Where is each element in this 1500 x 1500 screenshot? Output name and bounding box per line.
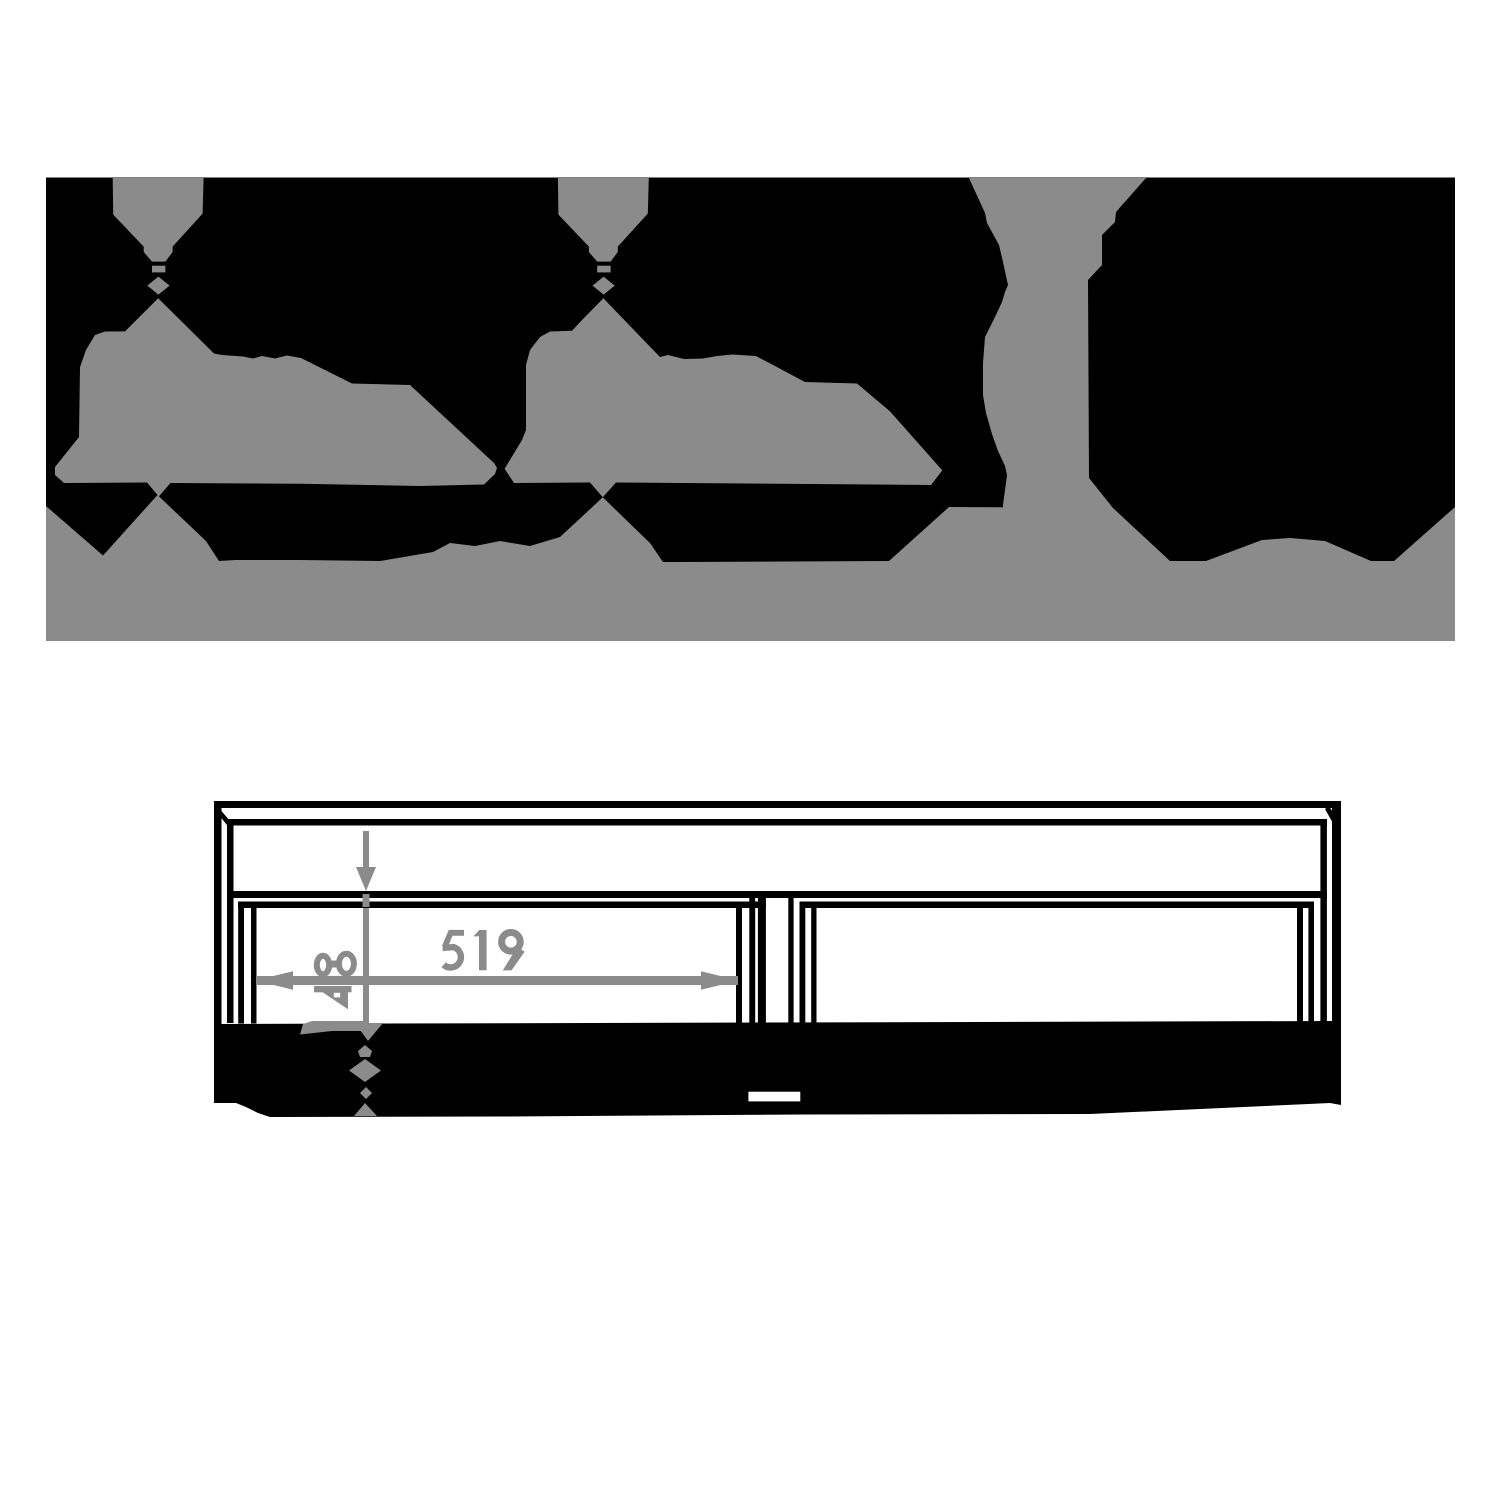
in-band bottom triangle <box>354 1103 377 1116</box>
top band black field <box>46 178 1455 642</box>
left compartment top line <box>238 902 766 909</box>
gray swash at band top <box>300 1021 368 1035</box>
divider wall line b <box>749 898 755 1024</box>
top-left inner chamfer <box>214 806 231 825</box>
funnel dimension marker 2 <box>558 178 649 295</box>
left compartment outer wall <box>238 902 244 1024</box>
label 48 rotated digit 8 <box>317 956 329 974</box>
vertical dim mid square <box>363 894 370 907</box>
divider wall line c <box>758 898 766 1024</box>
label 519 digit 5 <box>443 933 464 968</box>
divider wall line a <box>736 907 742 1024</box>
divider wall line f <box>811 907 816 1024</box>
top-right inner chamfer <box>1325 806 1339 825</box>
label 519 digit 9 <box>502 933 521 952</box>
label 519 digit 1 <box>479 930 487 970</box>
outer top line <box>214 801 1341 808</box>
divider wall line e <box>800 902 806 1024</box>
inner left line <box>227 819 234 1023</box>
outer right line <box>1332 801 1341 1103</box>
right gray column <box>969 178 1146 518</box>
middle gray blob <box>505 298 943 497</box>
inner top line <box>227 819 1327 826</box>
right compartment inner wall <box>1297 908 1303 1024</box>
right arrowhead <box>701 971 739 989</box>
in-band small diamond <box>360 1087 372 1099</box>
vertical dim top arrowhead <box>356 867 376 891</box>
in-band big diamond <box>349 1059 381 1082</box>
outer left line <box>214 801 222 1103</box>
left compartment inner wall <box>251 908 257 1024</box>
vertical dim shaft lower <box>363 908 369 1023</box>
label 48 rotated digit 4 <box>314 987 348 1010</box>
in-band down arrowhead <box>355 1023 383 1041</box>
bottom black band <box>214 1021 1341 1117</box>
left arrowhead <box>255 971 293 989</box>
right compartment top line <box>800 902 1315 909</box>
shelf bottom line <box>227 891 1327 898</box>
funnel dimension marker 1 <box>113 178 204 295</box>
right compartment outer wall <box>1308 902 1314 1024</box>
horizontal dim line 519 <box>256 976 738 985</box>
in-band up arrow <box>358 1045 372 1057</box>
foot gap notch <box>748 1092 800 1102</box>
inner right line <box>1320 819 1327 1023</box>
bottom gray strip of top band <box>46 495 1455 641</box>
vertical dim shaft upper <box>363 831 369 867</box>
divider wall line d <box>788 898 793 1024</box>
left gray blob <box>55 298 497 496</box>
